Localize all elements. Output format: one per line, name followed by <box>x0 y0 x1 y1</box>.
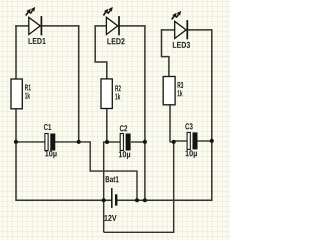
wire: branch1 left vertical (R1 to rail corner) <box>15 109 17 201</box>
wire: rail left of battery <box>15 199 111 201</box>
capacitor C1 label <box>44 124 51 130</box>
junction: rail at branch2 down wire <box>102 198 106 202</box>
wire: LED2 cathode to right corner <box>119 25 145 27</box>
capacitor C1 value <box>45 150 56 158</box>
capacitor C3 <box>187 132 197 149</box>
junction: C1 left <box>14 140 18 144</box>
capacitor C1 <box>45 134 55 151</box>
resistor R2 label <box>115 85 121 91</box>
resistor R2 value <box>115 93 120 99</box>
LED D1 label <box>29 38 46 44</box>
battery Bat1 label <box>106 176 119 182</box>
resistor R3 <box>163 77 175 105</box>
LED D2 <box>103 7 119 35</box>
junction: C1 right <box>77 140 81 144</box>
wire: rail right of battery <box>117 199 213 201</box>
resistor R3 label <box>178 82 184 88</box>
wire: bottom loop <box>104 142 174 232</box>
wire: C2 row left segment <box>107 141 120 143</box>
resistor R3 value <box>178 90 183 96</box>
wire: branch3 left jog to R3 <box>162 29 169 76</box>
wire: LED1 cathode to right corner <box>42 25 79 27</box>
capacitor C3 label <box>185 123 192 129</box>
wire: R3 bottom lead with elbow to C3 junction <box>169 105 173 142</box>
wire: branch2 down wire (jog left, to bottom loop) <box>104 142 107 232</box>
wire: C1 row right segment <box>55 141 79 143</box>
wire: branch2 left jog to R2 <box>95 25 107 79</box>
wire: middle path C1-right down to rail <box>79 142 137 200</box>
LED D3 <box>172 11 188 39</box>
wire: LED2 left lead <box>95 25 107 27</box>
resistor R1 value <box>25 92 30 98</box>
capacitor C2 label <box>120 125 127 131</box>
capacitor C2 <box>120 134 130 151</box>
resistor R1 <box>11 79 22 109</box>
junction: C3 right <box>210 139 214 143</box>
battery Bat1 value <box>104 215 116 221</box>
wire: C3 row left segment <box>174 140 188 142</box>
junction: C2 left / R2 bottom <box>105 140 109 144</box>
LED D1 <box>26 7 42 35</box>
wire: branch1 left vertical (top to R1) <box>15 25 17 79</box>
capacitor C2 value <box>119 151 130 159</box>
wire: LED3 cathode to right corner <box>188 29 213 31</box>
wire: R2 bottom lead to C2 junction <box>106 108 108 142</box>
wire: LED3 left lead <box>161 29 175 31</box>
wire: LED1 left lead <box>15 25 29 27</box>
junction: C2 right <box>143 140 147 144</box>
resistor R1 label <box>25 85 31 91</box>
junction: C3 left <box>172 140 176 144</box>
battery Bat1 long plate <box>111 188 113 208</box>
capacitor C3 value <box>186 150 197 158</box>
junction: rail at branch2 right <box>143 198 147 202</box>
wire: C2 row right segment <box>131 141 145 143</box>
wire: branch1 right vertical <box>78 25 80 142</box>
wire: branch3 right vertical <box>211 29 213 200</box>
resistor R2 <box>101 79 112 109</box>
LED D2 label <box>107 38 124 44</box>
wire: C1 row left segment <box>16 141 45 143</box>
wire: branch2 right vertical <box>144 25 146 200</box>
battery Bat1 short plate <box>115 194 117 205</box>
wire: C3 row right segment <box>197 140 211 142</box>
junction: rail at middle path <box>135 198 139 202</box>
LED D3 label <box>173 42 190 48</box>
